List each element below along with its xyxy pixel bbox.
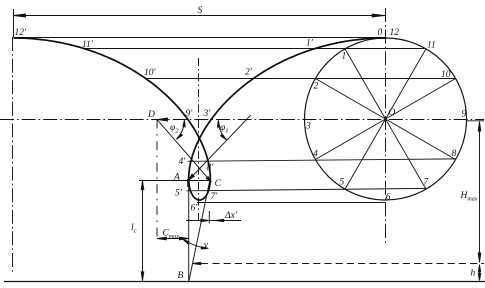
svg-text:9: 9	[462, 110, 467, 120]
bottom reference line	[4, 281, 485, 283]
level line 6	[197, 202, 386, 204]
angle phi2 arc at D	[177, 121, 185, 139]
level line 4/8	[188, 159, 456, 161]
H max extension top	[466, 120, 484, 122]
svg-text:8′: 8′	[207, 163, 215, 173]
chord D to C	[157, 120, 211, 183]
left axis at 12 prime	[12, 37, 14, 272]
svg-text:12′: 12′	[15, 28, 28, 38]
svg-text:8: 8	[452, 149, 457, 159]
tangent B-C	[189, 177, 211, 283]
svg-text:1′: 1′	[306, 39, 314, 49]
svg-text:4′: 4′	[179, 157, 187, 167]
svg-text:h: h	[471, 269, 476, 279]
point A marker	[188, 174, 194, 180]
dimension l c	[142, 181, 144, 282]
dimension delta x prime	[186, 220, 241, 222]
dimension H max	[479, 122, 481, 263]
angle phi1 arc	[218, 121, 226, 140]
ground leader arrowhead	[193, 262, 201, 264]
ground dashed line	[213, 263, 485, 265]
delta x extension tick	[208, 211, 210, 224]
S extension left	[13, 9, 15, 37]
svg-text:10′: 10′	[144, 68, 157, 78]
vertical tangent A-B	[188, 178, 190, 282]
svg-text:10: 10	[441, 70, 451, 80]
svg-text:0: 0	[378, 28, 383, 38]
svg-text:12: 12	[390, 28, 400, 38]
svg-text:2′: 2′	[245, 68, 253, 78]
svg-text:5′: 5′	[175, 189, 183, 199]
svg-text:6: 6	[386, 193, 391, 203]
svg-text:7′: 7′	[211, 192, 219, 202]
spoke 1-7	[345, 49, 426, 189]
svg-text:C: C	[215, 179, 222, 189]
svg-text:O: O	[389, 108, 396, 118]
svg-text:3: 3	[305, 122, 311, 132]
spoke 4-10	[315, 79, 455, 160]
svg-text:B: B	[178, 271, 184, 281]
spoke 5-11	[345, 49, 426, 189]
level line 10/2	[146, 78, 456, 80]
svg-text:4: 4	[313, 150, 318, 160]
spoke 2-8	[315, 79, 455, 160]
svg-text:γ: γ	[204, 241, 208, 251]
svg-text:S: S	[198, 6, 203, 16]
svg-text:A: A	[173, 173, 180, 183]
chord from phi1 apex to A	[188, 115, 251, 180]
trochoid blade path curve	[14, 38, 386, 200]
loop vertical axis	[198, 58, 200, 221]
point C marker	[206, 177, 211, 182]
angle gamma arc at B	[183, 239, 209, 248]
vertical centerline through O (12-6 axis)	[385, 8, 387, 243]
ground leader to tangent	[194, 263, 209, 265]
svg-text:3′: 3′	[203, 109, 212, 119]
rotor circle	[305, 38, 467, 200]
dimension C max	[157, 238, 189, 240]
D vertical axis	[156, 120, 158, 243]
dimension h	[479, 265, 481, 281]
svg-text:2: 2	[314, 82, 319, 92]
motion direction arrowhead at D	[158, 118, 168, 121]
horizontal centerline through O	[0, 119, 484, 121]
svg-text:9′: 9′	[186, 109, 194, 119]
svg-text:1: 1	[342, 52, 347, 62]
level line 0-12 prime	[14, 37, 386, 39]
svg-text:11: 11	[427, 41, 436, 51]
svg-text:5: 5	[340, 178, 345, 188]
level line A-C	[139, 180, 211, 182]
dimension S	[14, 15, 386, 17]
level line 5/7	[187, 188, 427, 190]
svg-text:6′: 6′	[191, 204, 199, 214]
level line 11/1	[85, 48, 426, 50]
svg-text:D: D	[147, 110, 155, 120]
svg-text:Δx′: Δx′	[224, 211, 238, 221]
svg-text:11′: 11′	[82, 40, 94, 50]
